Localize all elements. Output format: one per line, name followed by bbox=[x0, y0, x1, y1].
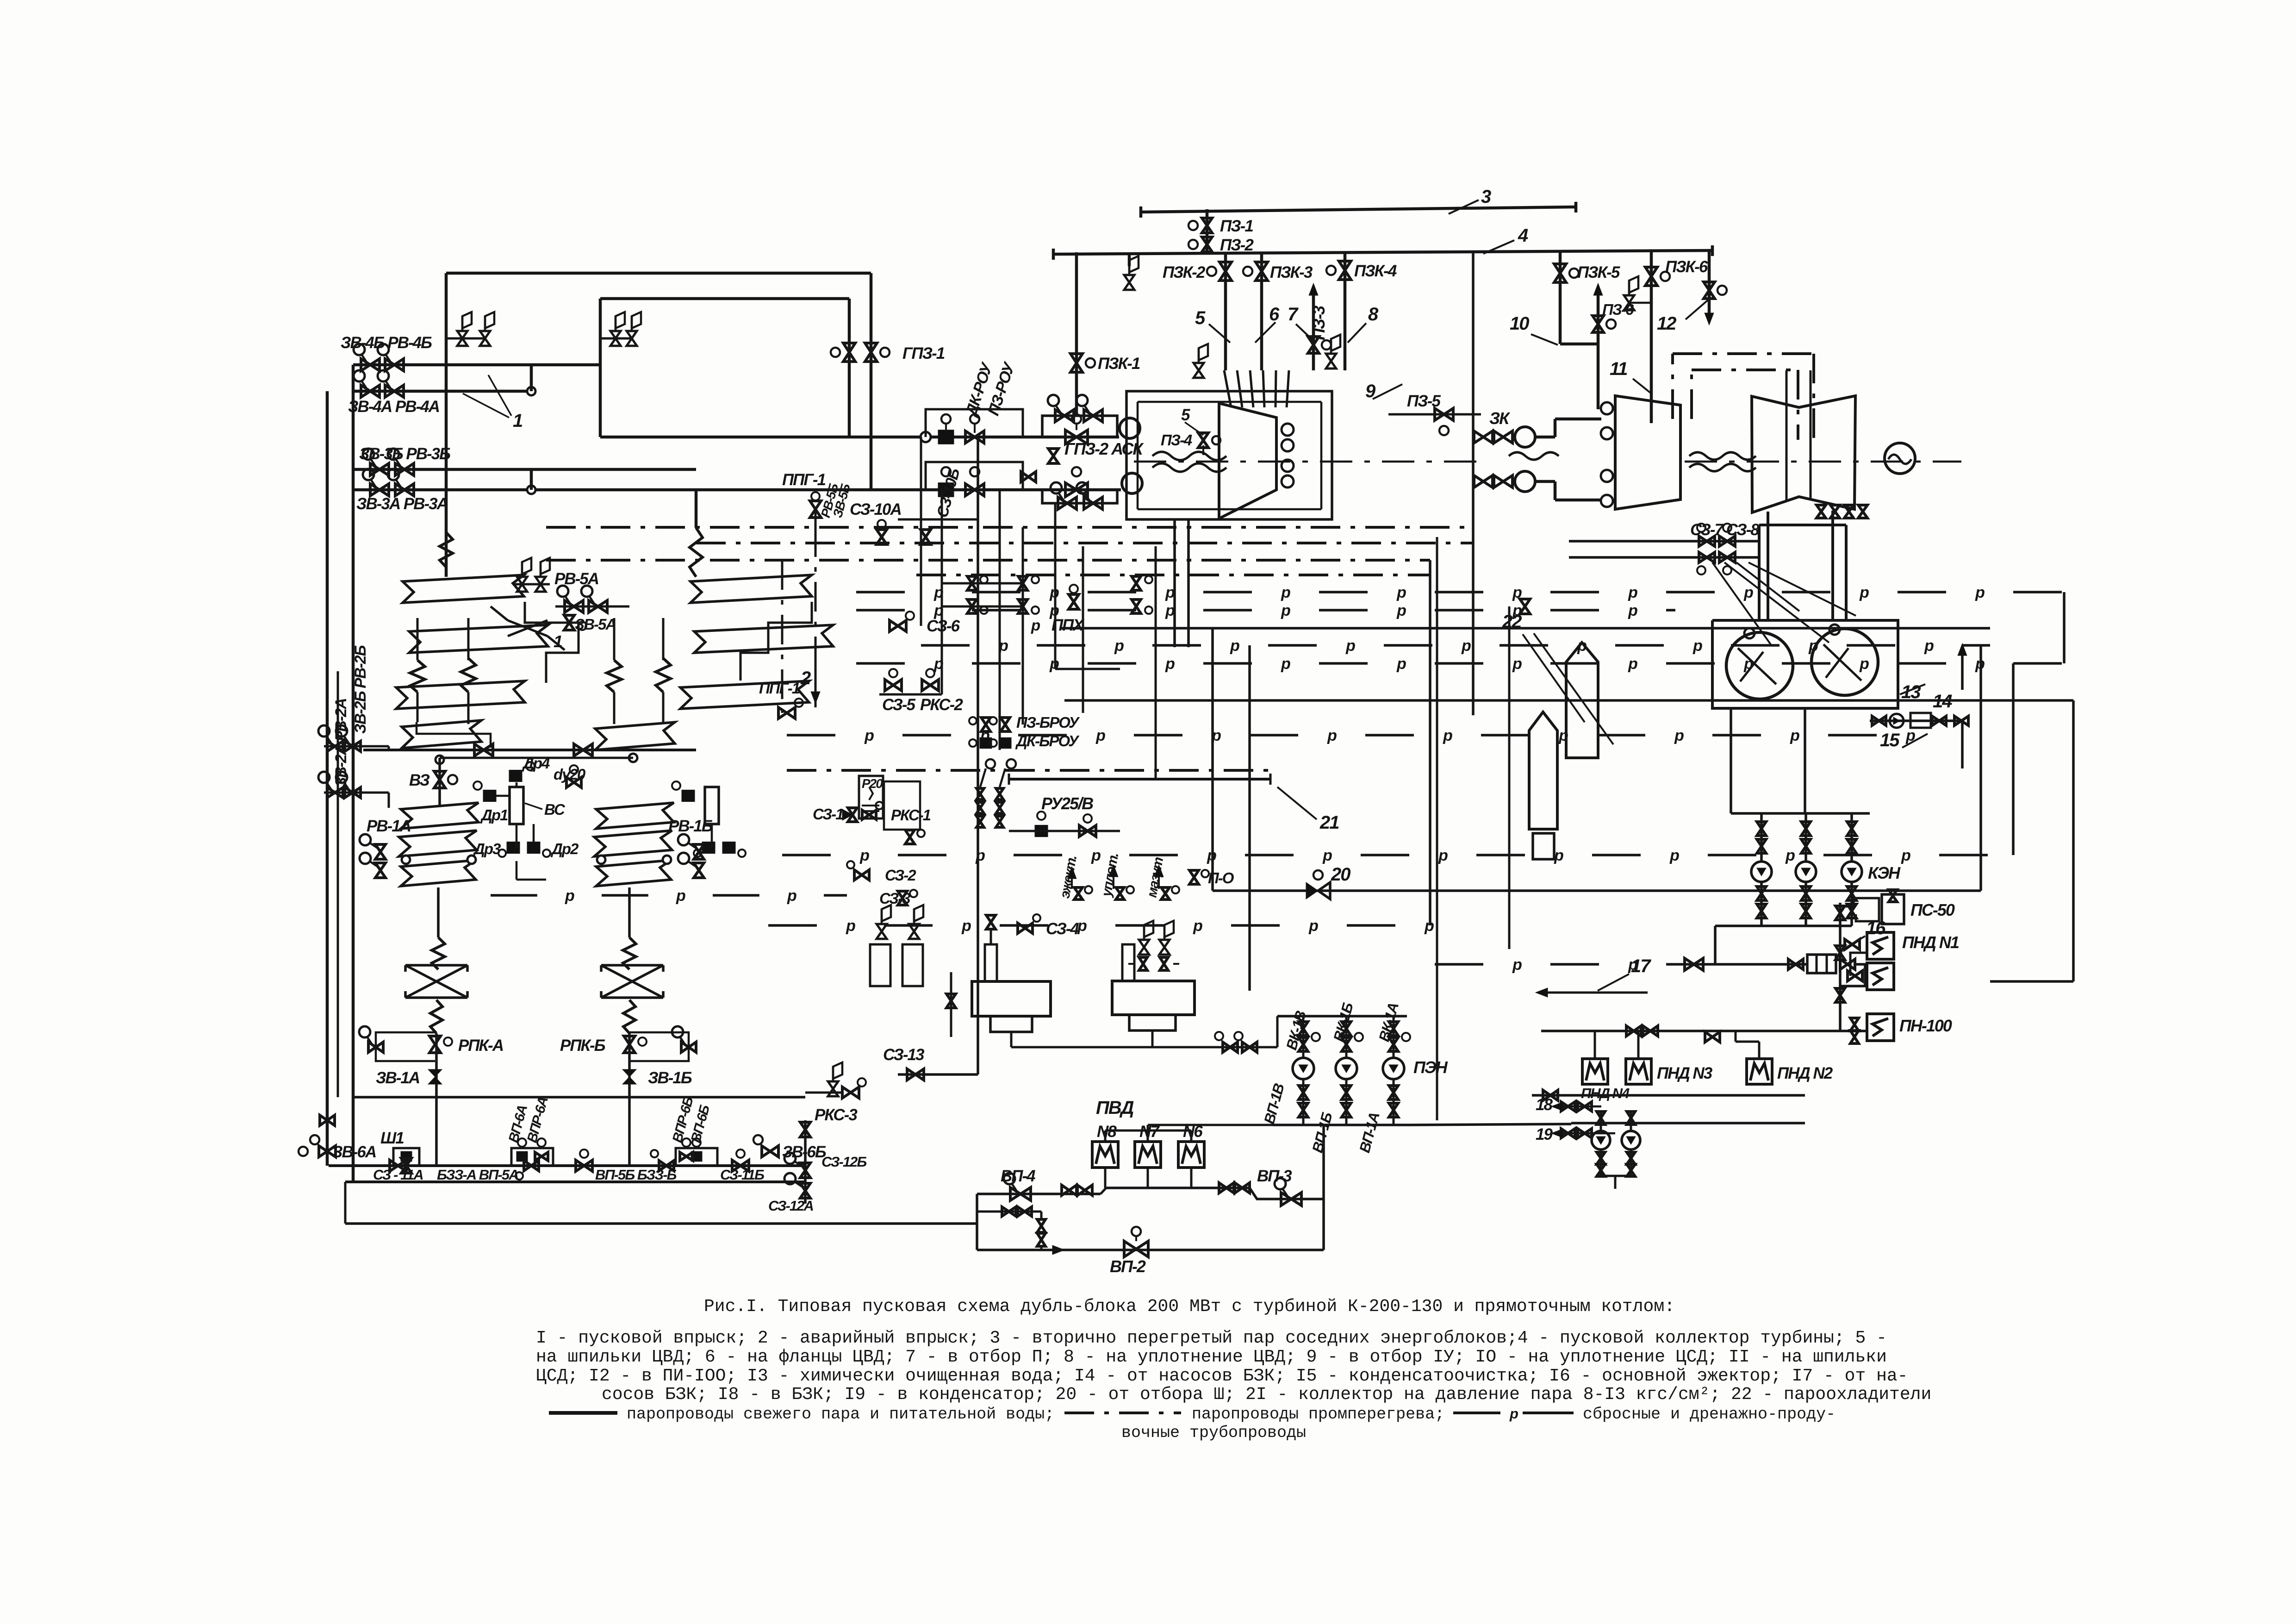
feed line valves bbox=[474, 744, 493, 756]
valve PZ-3 bbox=[1308, 337, 1319, 353]
RPK-B bypass bbox=[629, 1032, 689, 1061]
PEN below b bbox=[1345, 1079, 1348, 1125]
riser x1297 bbox=[599, 299, 602, 437]
SZ-2 valve bbox=[854, 870, 869, 880]
svg-text:ПЗ-1: ПЗ-1 bbox=[1220, 217, 1253, 235]
valve RPK-A bbox=[429, 1036, 441, 1053]
riser x2860 bbox=[1322, 1125, 1325, 1250]
drain line y1999 bbox=[768, 924, 817, 927]
valve on x3976 b bbox=[1836, 946, 1845, 960]
svg-text:ПНД N2: ПНД N2 bbox=[1777, 1064, 1833, 1082]
RV-1B junction circles bbox=[597, 856, 605, 864]
ZV-5A valve bbox=[564, 615, 574, 630]
PVD heater N6 bbox=[1178, 1142, 1204, 1168]
PVD heater N7 bbox=[1135, 1142, 1161, 1168]
condensate header bbox=[1731, 812, 1870, 815]
pipe line 4 (turbine startup collector) bbox=[1053, 250, 1712, 254]
svg-text:р: р bbox=[1308, 917, 1318, 935]
svg-text:р: р bbox=[1281, 602, 1290, 619]
svg-text:р: р bbox=[1509, 1405, 1518, 1422]
ejector feed line bbox=[1675, 963, 1807, 966]
bypass valve d bbox=[1084, 497, 1102, 509]
label 6 leader bbox=[1255, 322, 1276, 343]
line PZ-3 with up arrow bbox=[1312, 289, 1315, 370]
valve PZK-6 bbox=[1645, 267, 1657, 286]
PND lower line bbox=[1532, 1094, 1805, 1097]
svg-text:р: р bbox=[1165, 602, 1175, 619]
BROU drop lines bbox=[980, 768, 986, 787]
casing verticals down bbox=[1173, 519, 1176, 647]
inner left vertical bbox=[352, 365, 355, 1182]
svg-text:ПНД N1: ПНД N1 bbox=[1902, 933, 1959, 952]
line PZ-6 up arrow bbox=[1597, 289, 1600, 344]
svg-text:СЗ-5: СЗ-5 bbox=[882, 696, 916, 714]
svg-text:ППГ-1: ППГ-1 bbox=[782, 471, 825, 489]
svg-text:р: р bbox=[1396, 602, 1406, 619]
svg-text:9: 9 bbox=[1365, 381, 1376, 401]
svg-text:РКС-3: РКС-3 bbox=[815, 1106, 858, 1124]
PEN pump c bbox=[1383, 1058, 1404, 1079]
vertical x4460 bbox=[2063, 592, 2066, 663]
svg-text:19: 19 bbox=[1536, 1125, 1553, 1143]
PEN suction header bbox=[1277, 1015, 1407, 1018]
downcomer A bbox=[437, 887, 440, 937]
svg-text:р: р bbox=[1669, 847, 1679, 864]
svg-text:СЗ-6: СЗ-6 bbox=[927, 617, 960, 635]
svg-text:р: р bbox=[1628, 655, 1637, 673]
shaft centerline right bbox=[1685, 461, 1961, 463]
SZ-13 line bbox=[898, 1073, 978, 1076]
svg-text:8: 8 bbox=[1368, 304, 1379, 325]
lines into CSD lower bbox=[1535, 480, 1555, 483]
LP exhaust neck bbox=[1767, 512, 1769, 620]
valve 20 bbox=[1306, 882, 1318, 899]
downcomer B bbox=[628, 887, 631, 937]
svg-text:р: р bbox=[1438, 847, 1448, 864]
flash tank 1 bbox=[1529, 712, 1557, 829]
KEN below a bbox=[1760, 882, 1763, 926]
left frame vertical bbox=[326, 391, 329, 1166]
shaft seal waves left bbox=[1152, 452, 1226, 460]
LP center pipes bbox=[1786, 370, 1788, 500]
svg-text:ПНД N3: ПНД N3 bbox=[1657, 1064, 1713, 1082]
ejector valves bbox=[1788, 959, 1803, 969]
vertical x4280 bbox=[1979, 645, 1982, 891]
eject valves bbox=[1074, 887, 1083, 899]
PND drops bbox=[1594, 1031, 1596, 1059]
valve ZV-6A bbox=[319, 1146, 336, 1157]
drop PZK-5 bbox=[1559, 250, 1562, 344]
SZ-13 valve bbox=[907, 1069, 924, 1080]
Dr3 black square bbox=[507, 842, 520, 853]
vertical x4480 bbox=[2072, 700, 2075, 981]
valve VP-5A bbox=[576, 1160, 592, 1171]
aux line y2617 bbox=[977, 1211, 1041, 1213]
RU25 collector bbox=[1009, 778, 1270, 781]
PEN riser a bbox=[1302, 1016, 1305, 1058]
vertical x3105 bbox=[1436, 537, 1438, 1120]
svg-text:р: р bbox=[1512, 584, 1522, 601]
svg-text:21: 21 bbox=[1319, 812, 1339, 833]
PPG-1 valve top bbox=[810, 501, 821, 518]
svg-text:р: р bbox=[1975, 584, 1985, 601]
row3 line ZV-3B bbox=[353, 468, 696, 471]
svg-text:р: р bbox=[864, 727, 874, 744]
GPZ-1 drop left bbox=[848, 299, 851, 437]
svg-text:ЗК: ЗК bbox=[1489, 409, 1511, 428]
svg-text:3: 3 bbox=[1481, 187, 1491, 207]
svg-text:ЗВ-4А РВ-4А: ЗВ-4А РВ-4А bbox=[348, 398, 439, 416]
PVD heater N8 bbox=[1092, 1142, 1118, 1168]
svg-text:р: р bbox=[1692, 637, 1702, 655]
svg-text:ЗВ-3Б РВ-3Б: ЗВ-3Б РВ-3Б bbox=[359, 445, 450, 463]
HP cylinder trapezoid bbox=[1219, 403, 1276, 518]
SZ-10B valve bbox=[921, 530, 931, 544]
label 3 leader bbox=[1449, 200, 1479, 214]
riser B break bbox=[690, 528, 703, 577]
polisher box bbox=[1910, 713, 1931, 728]
PND bus valves bbox=[1626, 1026, 1641, 1036]
dy20 valve bbox=[566, 777, 581, 787]
KEN drop c bbox=[1850, 813, 1853, 862]
valves pair mid a bbox=[1018, 576, 1027, 590]
svg-text:СЗ-4: СЗ-4 bbox=[1046, 920, 1079, 938]
VP-3 bend bbox=[1250, 1188, 1324, 1199]
zigzag break on riser A bbox=[440, 532, 453, 567]
bus line 1 bbox=[329, 1164, 805, 1167]
bus line 2 bbox=[345, 1181, 805, 1183]
vertical x2113 RU25 bbox=[977, 437, 979, 1074]
vertical x2035 bbox=[941, 490, 943, 694]
SZ-78 valves a bbox=[1699, 536, 1715, 546]
valve RPK-B bbox=[624, 1036, 635, 1053]
ROU reducer line B bbox=[938, 483, 954, 497]
label 2 arrow bbox=[815, 657, 817, 698]
BZK tank 1 bbox=[972, 981, 1051, 1016]
svg-text:ПЗК-4: ПЗК-4 bbox=[1354, 262, 1397, 280]
svg-text:р: р bbox=[1674, 727, 1684, 744]
casing HP inner bbox=[1138, 401, 1321, 403]
junction circle row4 bbox=[527, 486, 535, 494]
vertical x2280 bbox=[1054, 503, 1057, 669]
vent valve with flag bbox=[1124, 275, 1134, 290]
vent flags pair col A bbox=[446, 337, 485, 340]
svg-text:2: 2 bbox=[800, 668, 811, 688]
svg-text:ЦСД; I2 - в ПИ-IОО; I3 - химич: ЦСД; I2 - в ПИ-IОО; I3 - химически очище… bbox=[536, 1366, 1908, 1386]
legend solid line bbox=[549, 1411, 617, 1415]
drain line y2083 right bbox=[1435, 963, 1483, 966]
reheat dashdot y1242 bbox=[916, 574, 1430, 576]
svg-text:р: р bbox=[1577, 637, 1587, 655]
valve PZ-5 bbox=[1435, 408, 1453, 420]
drain line y1318 bbox=[856, 609, 905, 612]
valve RV-4A bbox=[385, 385, 404, 397]
svg-text:р: р bbox=[1512, 602, 1522, 619]
polisher pump bbox=[1890, 714, 1904, 728]
svg-text:ПЗ-2: ПЗ-2 bbox=[1220, 236, 1254, 254]
drain p line y1934 bbox=[491, 894, 537, 897]
svg-text:Др2: Др2 bbox=[550, 840, 579, 857]
valve ZV-3B bbox=[370, 463, 389, 475]
drop 6 line bbox=[1260, 252, 1263, 370]
valves pair mid b bbox=[1132, 576, 1141, 590]
svg-text:Рис.I. Типовая пусковая схема: Рис.I. Типовая пусковая схема дубль-блок… bbox=[704, 1297, 1675, 1317]
Dr piping bbox=[516, 782, 518, 787]
valve SZ-11A bbox=[390, 1160, 406, 1171]
RV-1B banner 2 bbox=[594, 831, 672, 856]
svg-text:р: р bbox=[1905, 727, 1915, 744]
PN-100 box bbox=[1867, 1014, 1894, 1041]
condenser circle B bbox=[1811, 629, 1878, 695]
air heater B bbox=[601, 964, 663, 967]
valve PZK-4 bbox=[1339, 261, 1351, 280]
svg-text:паропроводы промперегрева;: паропроводы промперегрева; bbox=[1192, 1405, 1444, 1424]
valve ZV-6B bbox=[762, 1146, 778, 1157]
svg-text:4: 4 bbox=[1518, 225, 1528, 246]
svg-text:ПЗ-5: ПЗ-5 bbox=[1407, 392, 1441, 410]
link PND1 to box2 bbox=[1850, 953, 1867, 976]
svg-text:р: р bbox=[1077, 917, 1087, 935]
SZ-78 line b bbox=[1569, 556, 1759, 559]
svg-text:р: р bbox=[1558, 727, 1568, 744]
svg-text:СЗ - 11А: СЗ - 11А bbox=[373, 1167, 423, 1183]
spring B low2 bbox=[623, 1000, 635, 1033]
bypass valve c bbox=[1058, 497, 1076, 509]
svg-text:6: 6 bbox=[1269, 304, 1280, 325]
label VS leader bbox=[525, 803, 542, 809]
svg-text:р: р bbox=[1091, 847, 1101, 864]
solid line y1357 bbox=[1060, 627, 1990, 630]
ACK stop valve lower bbox=[1122, 473, 1142, 493]
downcomer A2 bbox=[435, 1033, 438, 1166]
svg-text:РПК-А: РПК-А bbox=[458, 1037, 503, 1055]
stub y1310 valves bbox=[942, 606, 1023, 608]
drain line y1847 bbox=[782, 854, 831, 856]
SZ-10A valve bbox=[877, 530, 887, 544]
svg-text:ЗВ-2Б РВ-2Б: ЗВ-2Б РВ-2Б bbox=[352, 645, 369, 734]
drain line y1433 bbox=[856, 662, 905, 665]
ZK stop circle lower bbox=[1515, 471, 1535, 492]
PVD bottom stubs bbox=[1104, 1168, 1107, 1188]
svg-text:р: р bbox=[787, 887, 796, 905]
platen banner A4 bbox=[402, 720, 481, 748]
svg-text:ПНД N4: ПНД N4 bbox=[1581, 1085, 1630, 1101]
main valve GPZ-2 upper bbox=[1065, 430, 1088, 444]
spring B2 bbox=[656, 658, 671, 692]
svg-text:ГПЗ-1: ГПЗ-1 bbox=[902, 344, 945, 362]
drop 5 line bbox=[1224, 252, 1227, 370]
valve PZ-2 bbox=[1202, 237, 1212, 252]
vent flag near 5 bbox=[1194, 363, 1204, 378]
PEN pump a bbox=[1293, 1058, 1314, 1079]
svg-text:РПК-Б: РПК-Б bbox=[560, 1037, 605, 1055]
platen banner B1 bbox=[691, 575, 812, 603]
svg-text:ВЗ: ВЗ bbox=[409, 771, 429, 789]
svg-text:Ш1: Ш1 bbox=[380, 1129, 404, 1147]
ROU frame bbox=[926, 409, 1023, 437]
svg-text:5: 5 bbox=[1195, 308, 1206, 328]
svg-text:Др1: Др1 bbox=[480, 806, 508, 824]
BROU outlet circles bbox=[986, 759, 995, 768]
svg-text:р: р bbox=[1743, 655, 1753, 673]
svg-text:15: 15 bbox=[1880, 730, 1900, 750]
svg-text:р: р bbox=[1859, 655, 1869, 673]
crossing X pattern bbox=[508, 620, 548, 636]
svg-text:ПЗ-4: ПЗ-4 bbox=[1161, 431, 1192, 449]
valve PZK-1 bbox=[1070, 354, 1083, 372]
PEN below c bbox=[1393, 1079, 1395, 1125]
HP inlet circles bbox=[1282, 424, 1294, 436]
spring A1 bbox=[410, 660, 425, 692]
svg-text:р: р bbox=[1114, 637, 1124, 655]
RV-1A left valves bbox=[375, 844, 386, 859]
legend drain line bbox=[1453, 1412, 1500, 1414]
svg-text:СЗ-2: СЗ-2 bbox=[885, 867, 916, 884]
SZ-4 valve bbox=[1018, 923, 1033, 933]
generator bbox=[1885, 443, 1915, 474]
svg-text:р: р bbox=[1322, 847, 1332, 864]
svg-text:р: р bbox=[1443, 727, 1452, 744]
valve ZV-1A bbox=[428, 1069, 442, 1084]
top feed line y590 bbox=[446, 272, 871, 275]
condenser neck box bbox=[1758, 525, 1761, 620]
svg-text:Р20: Р20 bbox=[862, 776, 883, 791]
valve ZV-4A bbox=[361, 385, 380, 397]
valve RV-3B bbox=[395, 463, 414, 475]
label 15 leader bbox=[1902, 734, 1928, 748]
double valve after VP-4 bbox=[1062, 1185, 1076, 1195]
B column dr assembly bbox=[682, 790, 695, 801]
svg-text:12: 12 bbox=[1657, 313, 1676, 334]
label 17 arrow bbox=[1541, 992, 1648, 994]
small arrows eject bbox=[1071, 870, 1073, 889]
spring A low bbox=[432, 937, 445, 969]
polisher valves bbox=[1872, 716, 1886, 725]
svg-text:ДК-БРОУ: ДК-БРОУ bbox=[1015, 732, 1080, 750]
drop line x2608 bbox=[1206, 209, 1209, 252]
GPZ-1 drop right bbox=[870, 273, 873, 490]
cond level line bbox=[1730, 708, 1732, 813]
drop to PZK-1 bbox=[1075, 252, 1078, 417]
RPK-A bypass bbox=[376, 1032, 435, 1061]
label R20 box bbox=[859, 776, 883, 818]
valve GPZ-1 a bbox=[843, 343, 855, 362]
svg-text:ПЗ-3: ПЗ-3 bbox=[1309, 306, 1328, 340]
platen banner A3 bbox=[396, 681, 525, 709]
second feed line y645 bbox=[600, 297, 849, 300]
PVD top links bbox=[1104, 1131, 1107, 1142]
crossover dashdot inner bbox=[1690, 370, 1693, 419]
PND N3 box bbox=[1626, 1059, 1651, 1084]
vertical x2210 bbox=[1022, 527, 1024, 725]
svg-text:р: р bbox=[1512, 655, 1522, 673]
svg-text:5: 5 bbox=[1181, 406, 1190, 424]
svg-text:ГПЗ-2 АСК: ГПЗ-2 АСК bbox=[1064, 439, 1144, 458]
label 21 leader bbox=[1277, 787, 1317, 819]
valve on x3976 c bbox=[1836, 988, 1845, 1002]
SZ-5 RKS-2 valves bbox=[885, 680, 902, 691]
vertical x4350 bbox=[2012, 663, 2015, 855]
valves ZV-2A bbox=[327, 787, 343, 798]
svg-text:11: 11 bbox=[1610, 359, 1627, 379]
stub y1122 bbox=[898, 518, 978, 521]
valve RV-3A bbox=[395, 484, 414, 496]
flags bottom left pair bbox=[877, 924, 887, 939]
ROU reducer line A bbox=[938, 430, 954, 444]
valve PZ-4 bbox=[1198, 433, 1208, 448]
dashdot y1664 bbox=[787, 769, 1273, 772]
condenser shell box bbox=[1712, 620, 1898, 708]
KEN pump b bbox=[1796, 862, 1816, 882]
platen banner B4 bbox=[595, 722, 675, 750]
inner frame line y2370 bbox=[353, 1096, 805, 1099]
line to PZ-5 bbox=[1388, 413, 1481, 416]
left BZK valve bbox=[946, 994, 956, 1008]
stub y1260 valves bbox=[942, 582, 1023, 585]
svg-text:ППХ: ППХ bbox=[1052, 616, 1085, 634]
junction circles feed bbox=[436, 756, 444, 764]
valve PZ-6 bbox=[1593, 316, 1604, 332]
svg-text:р: р bbox=[1554, 847, 1563, 864]
KEN drop a bbox=[1760, 813, 1763, 862]
svg-text:р: р bbox=[1281, 584, 1290, 601]
RV-1B right valves bbox=[694, 844, 704, 859]
Dr1 black square bbox=[483, 790, 496, 801]
RKS-3 line bbox=[805, 1092, 842, 1094]
vertical condensate x3976 bbox=[1839, 903, 1842, 1031]
Dr2 black square bbox=[527, 842, 540, 853]
SZ-3 valve bbox=[898, 891, 907, 905]
RV-1B banner 1 bbox=[596, 803, 674, 829]
line 14 arrow up bbox=[1961, 721, 1964, 768]
svg-text:на шпильки ЦВД; 6 - на фланцы: на шпильки ЦВД; 6 - на фланцы ЦВД; 7 - в… bbox=[536, 1347, 1887, 1367]
air heater A bbox=[405, 964, 467, 967]
BZZ-A cluster bbox=[511, 1148, 553, 1166]
Dr4 black square bbox=[509, 770, 522, 781]
svg-text:вочные трубопроводы: вочные трубопроводы bbox=[1121, 1424, 1306, 1442]
valve on x3976 a bbox=[1836, 906, 1845, 920]
label 10 leader bbox=[1531, 334, 1558, 345]
svg-text:ПВД: ПВД bbox=[1096, 1098, 1134, 1118]
svg-text:р: р bbox=[565, 887, 574, 905]
vertical x1740 end bbox=[804, 1120, 807, 1204]
svg-text:р: р bbox=[1281, 655, 1290, 673]
row2 line ZV-4A bbox=[353, 390, 531, 393]
svg-text:р: р bbox=[1790, 727, 1799, 744]
svg-text:сосов БЗК; I8 - в БЗК; I9 - в: сосов БЗК; I8 - в БЗК; I9 - в конденсато… bbox=[602, 1385, 1931, 1405]
SZ-78 valves b bbox=[1699, 552, 1715, 562]
valve into box2 bbox=[1848, 971, 1862, 981]
SZ-7 SZ-8 leader diagonals bbox=[1712, 562, 1771, 644]
link VP2 to right bbox=[1324, 1249, 1344, 1250]
drain line y1279 bbox=[856, 591, 905, 593]
svg-text:р: р bbox=[1396, 584, 1406, 601]
riser x2111 bbox=[976, 1194, 978, 1250]
label 13 leader bbox=[1900, 684, 1925, 694]
vertical x1990 bbox=[920, 437, 922, 626]
svg-text:р: р bbox=[1628, 584, 1637, 601]
RV-1A banner 1 bbox=[401, 803, 479, 829]
svg-text:р: р bbox=[1924, 637, 1934, 655]
platen banner A1 bbox=[403, 575, 524, 603]
tank drain box bbox=[1533, 833, 1554, 859]
PPX valve bbox=[1069, 594, 1079, 609]
RKS-1 valve bbox=[905, 830, 915, 844]
KEN pump c bbox=[1842, 862, 1862, 882]
GPZ-2 bypass top bbox=[1042, 416, 1117, 437]
GPZ-2 bypass bottom bbox=[1042, 490, 1117, 503]
svg-text:СЗ-12А: СЗ-12А bbox=[768, 1198, 813, 1214]
